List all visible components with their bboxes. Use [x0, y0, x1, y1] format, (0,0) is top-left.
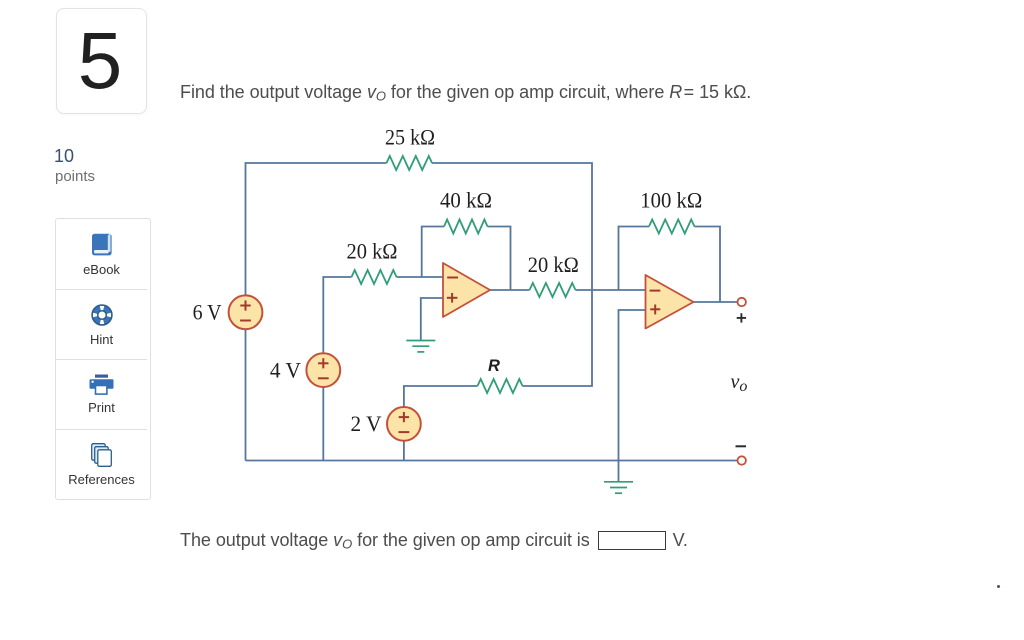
References icon [91, 443, 113, 468]
wire: 4V source up to 20k input resistor [323, 277, 351, 353]
question text [180, 82, 751, 103]
wire: bottom rail [246, 460, 742, 462]
op-amp U2 [646, 275, 694, 329]
wire: op-amp1 output to 20k [490, 289, 530, 291]
wire: 4V source down to bottom rail [322, 387, 324, 461]
wire: 6V node up and right to 25k resistor [246, 163, 387, 295]
output terminal + [738, 298, 746, 306]
wire: 20k to op-amp2 inverting input [576, 289, 646, 291]
resistor 20k (input) [352, 270, 397, 284]
resistor 100k [649, 220, 695, 234]
wire: 40k feedback right leg to op-amp1 output [488, 227, 511, 291]
resistor 25k [387, 156, 433, 170]
wire: 2V source down to bottom rail [403, 441, 405, 461]
svg-text:25 kΩ: 25 kΩ [385, 124, 435, 149]
svg-text:20 kΩ: 20 kΩ [528, 252, 579, 277]
wire: op-amp2 output to + terminal [694, 301, 738, 303]
circuit diagram [185, 118, 765, 508]
stray dot [997, 585, 1000, 588]
resistor 20k (coupling) [530, 283, 576, 297]
tool buttons [55, 218, 151, 500]
voltage source V1 6V [229, 295, 263, 329]
svg-text:20 kΩ: 20 kΩ [347, 238, 398, 263]
svg-text:R: R [488, 357, 500, 375]
output - sign [736, 445, 747, 447]
voltage source V2 4V [306, 353, 340, 387]
svg-text:100 kΩ: 100 kΩ [640, 188, 702, 213]
wire: op-amp2 + input down to ground [619, 310, 646, 482]
wire: 40k feedback left leg [422, 227, 444, 278]
resistor R [478, 379, 523, 393]
wire: op-amp1 + input to ground [421, 298, 443, 341]
question number box [56, 8, 147, 114]
output + sign [737, 313, 746, 322]
eBook icon [91, 233, 113, 257]
wire: 100k feedback right leg to op-amp2 output [695, 227, 721, 303]
svg-text:2 V: 2 V [351, 411, 382, 436]
wire: 25k right end to node A, vertical down to R [432, 163, 592, 386]
svg-text:4 V: 4 V [270, 358, 301, 383]
Hint icon [90, 303, 114, 327]
resistor 40k [444, 220, 488, 234]
svg-text:40 kΩ: 40 kΩ [440, 187, 492, 212]
ground (op-amp1 + input) [406, 341, 435, 352]
output terminal - [738, 456, 746, 464]
wire: left vertical below 6V source to bottom rail [245, 330, 247, 461]
wire: 100k feedback left leg [619, 227, 650, 291]
points [54, 146, 74, 167]
answer line [180, 530, 688, 551]
wire: 20k to op-amp1 inverting input [397, 276, 444, 278]
voltage source V3 2V [387, 407, 421, 441]
Print icon [89, 374, 114, 396]
svg-text:vo: vo [731, 371, 748, 395]
ground (bottom, op-amp2 + input) [604, 482, 633, 493]
wire: 2V source up to R resistor [404, 386, 478, 407]
op-amp U1 [443, 263, 490, 317]
svg-text:6 V: 6 V [193, 299, 222, 324]
